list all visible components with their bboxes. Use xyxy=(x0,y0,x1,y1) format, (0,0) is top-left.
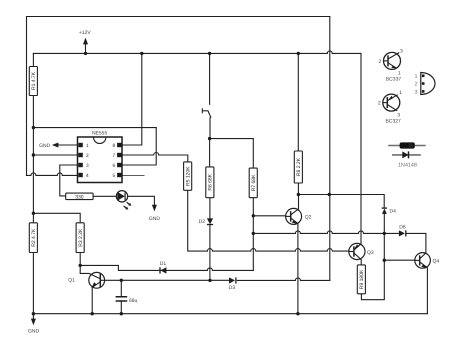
diode D3 xyxy=(229,277,236,290)
wire row pins2/6 node to pin6 riser xyxy=(33,127,156,129)
wire pin5 stub xyxy=(122,175,144,177)
svg-text:1: 1 xyxy=(415,74,418,80)
+12V supply arrow xyxy=(79,30,91,53)
wire frame loop left edge down to pin4 row xyxy=(26,17,28,176)
wire Q3 collector to R9 top xyxy=(360,260,362,265)
transistor Q3 (PNP) xyxy=(349,243,374,259)
wire pin6 riser down to pin 6 xyxy=(122,128,156,165)
svg-text:2: 2 xyxy=(415,82,418,88)
transistor BC327 legend icon xyxy=(378,90,402,124)
resistor R3 2.2K xyxy=(76,223,84,253)
wire +12V rail left corner down to R1 xyxy=(32,53,34,66)
wire pin7 row to R5 with hop over pin6 riser xyxy=(122,153,188,162)
resistor R2 4.7K xyxy=(29,223,37,253)
svg-text:GND: GND xyxy=(39,143,51,149)
wire switch bottom to junction xyxy=(209,118,211,139)
wire Q2 collector riser xyxy=(298,195,300,209)
wire R2/R3 top row xyxy=(33,213,80,223)
svg-text:GND: GND xyxy=(28,328,40,334)
TO-92 package outline xyxy=(415,73,435,96)
svg-text:6: 6 xyxy=(113,163,116,169)
svg-text:R7 68K: R7 68K xyxy=(251,174,257,191)
resistor R7 68K xyxy=(249,168,257,198)
resistor R5 120K xyxy=(184,162,192,190)
wire R6 bottom to D2 xyxy=(209,198,211,219)
svg-text:Q4: Q4 xyxy=(433,259,440,265)
diode D4 xyxy=(382,208,396,214)
op-amp U1 NE555 xyxy=(78,130,123,182)
wire Q2 base row xyxy=(253,215,285,217)
svg-text:NE555: NE555 xyxy=(92,130,108,136)
wire D1 row from Q1 node jog to R7 column with hop over D2 column xyxy=(80,265,253,270)
transistor Q4 xyxy=(415,253,440,269)
wire left rail R1 bottom to R2 top xyxy=(32,96,34,223)
wire Q1 emitter to ground rail xyxy=(91,287,93,313)
wire R5 bottom to Q3 base row with hops xyxy=(188,190,349,251)
wire R7 bottom through Q2 base and row junctions to D1 row xyxy=(252,198,254,271)
transistor Q1 xyxy=(68,272,104,288)
wire junction down to R6 top xyxy=(209,139,211,167)
capacitor 68u xyxy=(116,297,138,304)
svg-text:1: 1 xyxy=(86,143,89,149)
svg-text:BC327: BC327 xyxy=(386,118,402,124)
svg-text:BC337: BC337 xyxy=(386,77,402,83)
wire row 233.4 from R7 column to D6 with hops xyxy=(253,231,426,253)
pin 8 xyxy=(117,143,121,147)
svg-text:Q3: Q3 xyxy=(367,250,374,256)
svg-text:Q2: Q2 xyxy=(305,214,312,220)
wire R8 bottom to row 194.5 xyxy=(297,183,299,195)
svg-text:1: 1 xyxy=(399,90,402,96)
resistor R6 68K xyxy=(206,167,214,198)
svg-text:GND: GND xyxy=(149,216,161,222)
diode 1N4148 physical body xyxy=(388,142,426,148)
pin 1 xyxy=(78,143,82,147)
wire ground rail xyxy=(33,313,427,315)
pin 5 xyxy=(117,173,121,177)
wire Q4 emitter drop xyxy=(426,268,428,314)
wire switch column from rail to button xyxy=(209,53,211,104)
svg-text:R6 68K: R6 68K xyxy=(208,173,214,190)
ground symbol GND at pin 1 xyxy=(39,143,58,150)
svg-text:D6: D6 xyxy=(399,224,406,230)
wire Q4 base row xyxy=(384,259,415,261)
resistor R9 180K xyxy=(357,265,365,294)
wire 68u cap connections xyxy=(120,280,122,313)
pin 6 xyxy=(117,163,121,167)
ground symbol GND at LED xyxy=(149,205,161,222)
wire +12V column down to Q3 emitter xyxy=(360,53,362,244)
svg-text:D1: D1 xyxy=(160,261,167,267)
svg-text:5: 5 xyxy=(113,173,116,179)
svg-text:3: 3 xyxy=(400,48,403,54)
svg-text:1N4148: 1N4148 xyxy=(398,163,417,169)
resistor R8 2.2K xyxy=(294,151,302,183)
svg-text:2: 2 xyxy=(379,59,382,65)
wire 330 to LED xyxy=(93,195,116,197)
svg-text:R5 120K: R5 120K xyxy=(186,166,192,186)
svg-text:D3: D3 xyxy=(229,285,236,291)
diode D6 xyxy=(399,224,406,236)
wire +12V rail hop over frame loop xyxy=(327,51,332,54)
transistor Q2 xyxy=(286,208,312,224)
wire R2 bottom to ground rail xyxy=(32,253,34,314)
svg-text:D4: D4 xyxy=(390,208,397,214)
transistor BC337 legend icon xyxy=(379,48,403,82)
wire pin3 down to 330 resistor xyxy=(60,165,78,196)
resistor R1 4.7K xyxy=(29,67,37,96)
svg-text:68u: 68u xyxy=(129,298,138,304)
pin 2 xyxy=(78,153,82,157)
wire LED to GND arrow xyxy=(128,196,155,204)
diode 1N4148 symbol xyxy=(392,151,421,168)
wire R8 top to +12V rail xyxy=(297,53,299,151)
wire pin4 row from frame to pin 4 with hops xyxy=(27,173,78,176)
wire Q2 emitter drop to ground rail xyxy=(297,224,299,314)
diode D1 xyxy=(160,261,167,273)
pin 4 xyxy=(78,173,82,177)
pin 7 xyxy=(117,153,121,157)
wire junction to R7 top xyxy=(210,139,254,169)
switch S1 push button xyxy=(202,108,211,118)
ground symbol GND bottom left xyxy=(28,314,40,335)
wire +12V rail xyxy=(33,52,361,54)
svg-text:7: 7 xyxy=(113,153,116,159)
svg-text:2: 2 xyxy=(86,153,89,159)
wire pin2 row xyxy=(33,154,77,156)
svg-text:3: 3 xyxy=(86,163,89,169)
wire pin1 to GND arrow xyxy=(57,144,77,146)
svg-text:R2 4.7K: R2 4.7K xyxy=(31,228,37,247)
wire Q1 collector feed from R3 node xyxy=(80,265,89,273)
wire R3 bottom to Q1 node xyxy=(79,253,81,266)
svg-text:2: 2 xyxy=(378,101,381,107)
svg-text:+12V: +12V xyxy=(79,30,91,36)
wire row 194.5 from R8 to D4 drop xyxy=(298,195,384,209)
wire frame loop top edge (pin4 net) xyxy=(27,16,330,18)
pin 3 xyxy=(78,163,82,167)
wire pin8 riser to +12V rail xyxy=(122,53,142,145)
svg-text:3: 3 xyxy=(415,89,418,95)
LED D5 xyxy=(116,191,132,211)
svg-text:R1 4.7K: R1 4.7K xyxy=(31,71,37,90)
svg-text:D2: D2 xyxy=(199,219,206,225)
svg-text:R3 2.2K: R3 2.2K xyxy=(78,228,84,247)
wire Q1 base row to cap node and D3 row with hop over Q2 emitter xyxy=(105,278,330,281)
svg-text:330: 330 xyxy=(75,194,84,200)
svg-text:R9 180K: R9 180K xyxy=(359,269,365,289)
diode D2 xyxy=(199,218,214,225)
svg-text:4: 4 xyxy=(86,173,89,179)
wire D2 to Q1 base row xyxy=(209,225,211,281)
resistor 330 xyxy=(66,193,93,200)
svg-text:Q1: Q1 xyxy=(68,278,75,284)
wire D4 bottom through junctions down and loop to R9 bottom xyxy=(361,214,384,300)
svg-text:R8 2.2K: R8 2.2K xyxy=(296,157,302,176)
wire frame loop right edge down to D3 row xyxy=(329,17,331,281)
svg-text:8: 8 xyxy=(113,143,116,149)
